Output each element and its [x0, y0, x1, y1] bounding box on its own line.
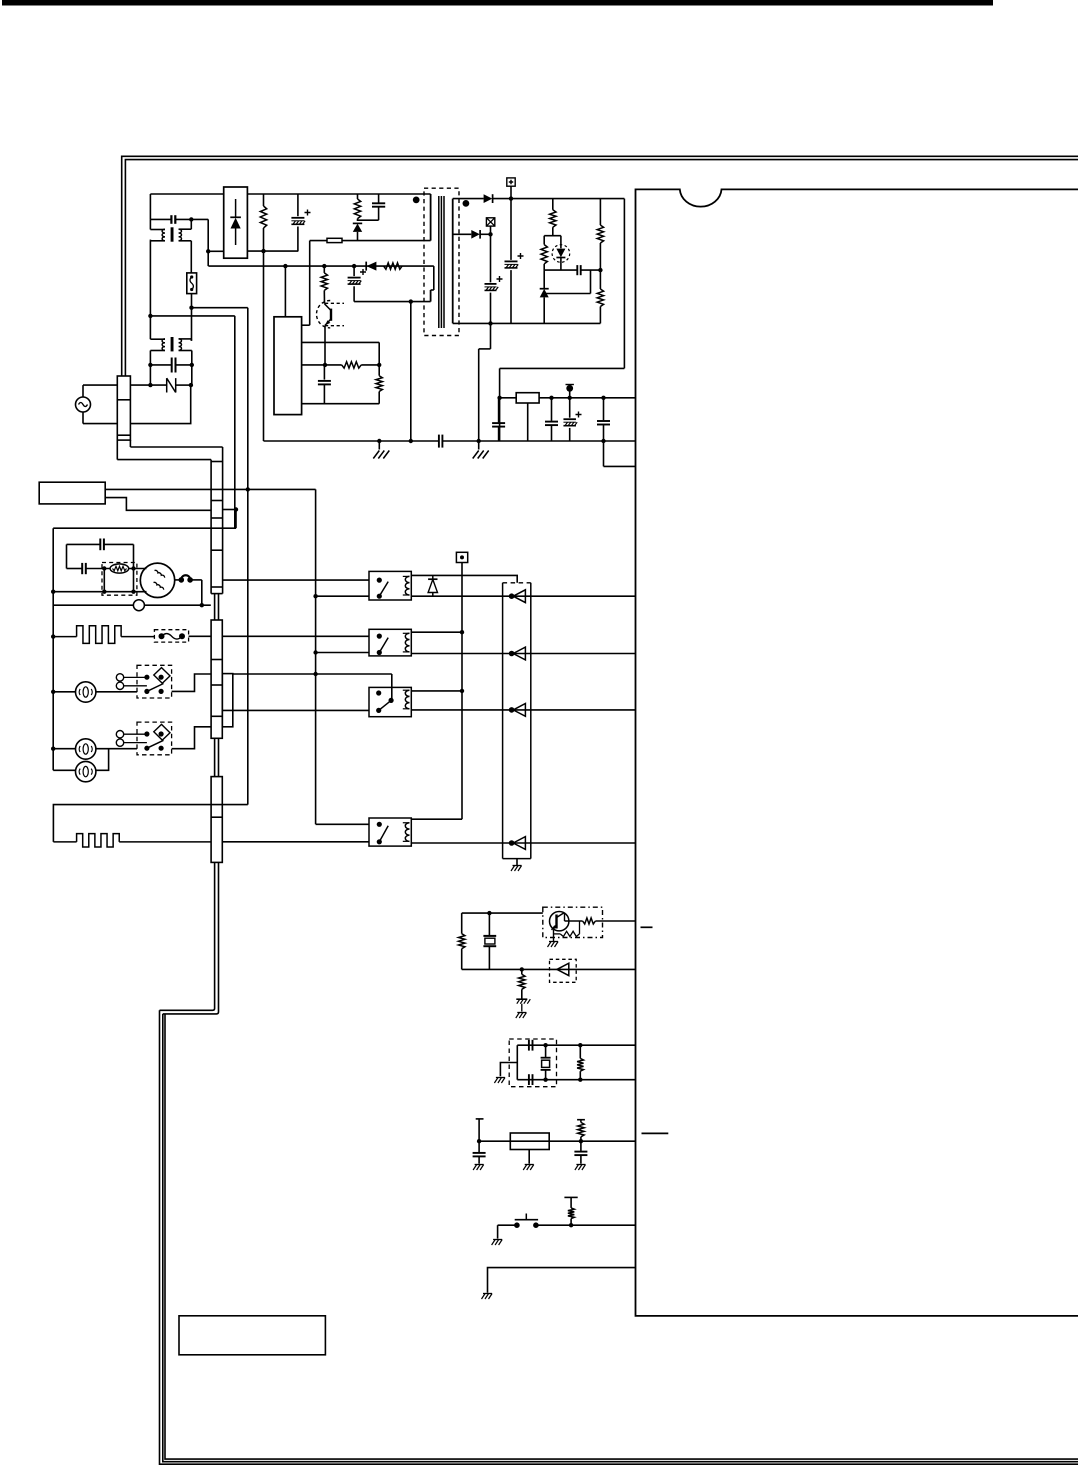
node X1 top: [543, 1043, 547, 1047]
capacitor C9 electrolytic: [510, 199, 512, 260]
terminal block CN-A: [117, 376, 130, 440]
ground IC4: [528, 1150, 530, 1164]
resistor R3 sense: [327, 238, 342, 242]
node IR divider: [520, 967, 524, 971]
node TP1 rail: [509, 196, 513, 200]
wire RY3 moving: [391, 674, 393, 700]
wire sense row: [310, 240, 327, 242]
node mag bottom right: [131, 590, 135, 594]
node C1-L1 junction: [189, 217, 193, 221]
AC source PS: [76, 397, 91, 412]
wire reg output: [539, 397, 635, 399]
switch SW3 stop: [498, 1224, 517, 1226]
node aux-Q1: [322, 264, 326, 268]
wire AC bottom: [83, 423, 117, 425]
header bar: [2, 0, 993, 6]
node L3 left: [102, 566, 106, 570]
wire RY1 coil bottom: [411, 595, 635, 597]
wire relay supply: [461, 563, 463, 820]
wire RY1 no: [316, 595, 369, 597]
wire aux return: [354, 301, 431, 303]
wire zener link: [544, 293, 590, 295]
node grill junction: [234, 507, 238, 511]
heater H2 element: [53, 841, 76, 843]
buzzer BZ: [488, 913, 490, 935]
label C10 plus: [497, 276, 503, 282]
node L3 right: [131, 566, 135, 570]
wire RY2 coil top: [411, 631, 462, 633]
node C2 right: [190, 363, 194, 367]
wire RY4 com: [316, 823, 369, 825]
wire sec tap row: [453, 233, 472, 235]
connector CN-D lower: [211, 777, 222, 863]
node B supply: [566, 385, 573, 392]
node aux-IC: [283, 264, 287, 268]
wire U1 bottom row: [302, 403, 380, 405]
ground driver: [516, 859, 518, 866]
node gnd rail c: [477, 439, 481, 443]
wire bake line vertical: [247, 308, 249, 805]
node R6-R7: [377, 363, 381, 367]
capacitor C18: [478, 1141, 480, 1152]
supply stub RST b: [577, 1119, 585, 1121]
wire mag bottom row: [53, 591, 146, 593]
wire column tap: [222, 509, 236, 511]
node C2 left: [148, 363, 152, 367]
driver Q array ch3: [509, 707, 515, 713]
component block NF: [39, 482, 105, 504]
node C10 rail: [488, 321, 492, 325]
capacitor C17: [528, 1074, 530, 1085]
capacitor C1 X2: [150, 218, 171, 220]
ground IR: [521, 1004, 523, 1012]
resistor R1 bleeder: [263, 194, 265, 206]
wire RY2 com: [222, 635, 369, 637]
wire AC top: [83, 384, 117, 386]
capacitor C10 electrolytic: [490, 234, 492, 282]
wire reset row: [479, 1140, 635, 1142]
wire L2 left down: [149, 351, 151, 386]
wire RY1 com: [222, 579, 369, 581]
wire fuse down: [191, 294, 193, 341]
ground Q2 emitter: [553, 930, 555, 942]
driver IC3 outline: [503, 582, 531, 584]
wire IR row: [462, 968, 636, 970]
resistor R4 aux: [384, 263, 403, 269]
wire mag filament out: [175, 579, 182, 581]
ground sense: [483, 1293, 492, 1295]
wire choke-L1 right down: [190, 241, 192, 273]
node filament b: [187, 577, 193, 583]
node gnd rail a: [377, 439, 381, 443]
wire U1 fb lower: [302, 364, 342, 366]
label C14 plus: [576, 412, 582, 418]
wire RY2 coil bottom: [411, 653, 635, 655]
ground osc: [496, 1077, 505, 1079]
wire 12V rail across: [500, 367, 625, 369]
node gnd rail d: [601, 439, 605, 443]
wire line pair bottom-left run: [160, 1010, 1078, 1464]
wire SW1 out: [172, 674, 211, 691]
wire Q2 collector: [565, 920, 583, 922]
node RY3 supply: [460, 689, 464, 693]
relay RY2: [369, 629, 411, 656]
node reg out C14: [568, 396, 572, 400]
crystal box: [509, 1039, 556, 1087]
wire mid-left branch: [150, 315, 234, 317]
wire Q1 emitter: [324, 325, 326, 365]
capacitor C13: [551, 398, 553, 421]
node fan junction: [200, 603, 204, 607]
wire block to column upper: [130, 446, 222, 448]
wire RY3 coil top: [411, 690, 462, 692]
wire fuse branch right: [192, 307, 248, 309]
resistor R17: [578, 1122, 584, 1136]
resistor R6: [342, 362, 362, 368]
wire C1 right drop: [207, 219, 209, 266]
connector filament arc: [181, 575, 190, 578]
fan motor FM: [133, 600, 144, 611]
wire NF out lower: [105, 498, 211, 511]
node filament a: [179, 577, 185, 583]
wire osc1: [517, 1044, 635, 1046]
diode D1 snubber: [353, 222, 362, 224]
capacitor C12: [498, 398, 500, 423]
capacitor C7: [323, 365, 325, 380]
thermal cutout TCO1: [154, 630, 188, 642]
node R16 top: [578, 1043, 582, 1047]
testpoint TP1: [507, 178, 515, 186]
capacitor C14 electrolytic: [569, 392, 571, 398]
IC U10 main control unit outline: [636, 189, 1078, 1316]
diode D5 relay: [432, 575, 434, 579]
resistor R9 upper: [599, 199, 601, 226]
resistor R15: [521, 969, 523, 974]
IC U10 pin stub row A: [641, 926, 653, 928]
connector CN-C middle: [211, 620, 222, 738]
wire mains top corner: [149, 194, 151, 219]
node RY2 supply: [460, 630, 464, 634]
switch SW1 door: [137, 665, 172, 698]
node reset b: [579, 1139, 583, 1143]
capacitor C3 main electrolytic: [297, 194, 299, 216]
node fuse-branch: [189, 306, 193, 310]
wire NF out upper: [105, 488, 315, 490]
connector CN-E lamp: [222, 674, 233, 727]
wire bake return: [53, 805, 247, 842]
driver Q array ch2: [509, 651, 515, 657]
wire AC neutral riser: [130, 385, 190, 424]
driver Q array ch1: [509, 593, 515, 599]
wire bridge top right: [247, 193, 430, 195]
wire osc left link: [516, 1045, 518, 1080]
IC U1 SMPS control: [274, 317, 302, 415]
wire sec top rail: [453, 198, 484, 200]
transformer T1 aux winding: [433, 266, 435, 290]
wire RY3 com: [222, 709, 369, 711]
transformer T1 core: [438, 196, 440, 328]
wire SW2 out: [172, 727, 211, 749]
node RY2 no: [313, 650, 317, 654]
resistor R7: [378, 342, 380, 375]
wire bridge out left: [208, 250, 224, 252]
node reset a: [477, 1139, 481, 1143]
switch SW2 door: [137, 722, 172, 755]
node rail mag: [51, 590, 55, 594]
capacitor C21 HV: [67, 568, 83, 570]
wire buzzer top: [462, 912, 543, 914]
wire sec bottom rail: [453, 322, 601, 324]
wire U1 fb upper: [302, 341, 380, 343]
testpoint TP3: [456, 552, 467, 562]
wire AC phase through block: [130, 384, 150, 386]
node lamp link: [313, 672, 317, 676]
crystal X1: [545, 1045, 547, 1057]
wire bridge bottom right: [247, 250, 298, 252]
wire snubber join: [358, 219, 379, 221]
ground SW3: [497, 1225, 499, 1238]
diode D4: [471, 230, 480, 239]
relay RY3: [369, 687, 411, 716]
node rail LP2: [51, 747, 55, 751]
wire lamp bus drop: [315, 489, 317, 824]
testpoint TP2: [486, 218, 494, 226]
wire R6 right: [361, 364, 379, 366]
label C6 plus: [360, 269, 366, 275]
wire U1 pin top: [284, 266, 286, 317]
heater H1 element: [53, 636, 76, 638]
node buzzer top: [487, 911, 491, 915]
driver Q array ch4: [509, 840, 515, 846]
lamp LP2: [53, 748, 75, 750]
resistor R16: [579, 1045, 581, 1058]
node X1 bottom: [543, 1078, 547, 1082]
resistor R12: [461, 913, 463, 934]
resistor R13: [583, 918, 596, 924]
varistor ZNR1: [150, 384, 166, 386]
regulator IC2: [516, 393, 539, 403]
capacitor C8 Y-cap: [438, 435, 440, 448]
capacitor C16: [528, 1040, 530, 1051]
node C1 drop junction: [206, 249, 210, 253]
node R16 bottom: [578, 1078, 582, 1082]
wire block to column lower: [117, 459, 211, 461]
capacitor C15: [603, 398, 605, 421]
wire RY1 coil top: [411, 575, 517, 582]
node rail H1: [51, 634, 55, 638]
node bake-lamp junction: [246, 487, 250, 491]
bridge rectifier DB1: [224, 187, 248, 258]
wire RY4 no: [222, 841, 369, 843]
ground secondary: [478, 441, 480, 450]
photodetector PC2: [550, 959, 577, 982]
node RY1 no: [313, 594, 317, 598]
wire sense low: [488, 1268, 636, 1293]
capacitor C6 aux electrolytic: [353, 266, 355, 276]
lamp LP3: [53, 769, 75, 771]
transistor Q2 box: [543, 907, 603, 937]
wire bus top: [235, 510, 237, 529]
wire fan row: [53, 604, 133, 606]
resistor R18: [564, 1196, 577, 1198]
transformer T1 secondary: [452, 199, 454, 324]
node rail LP1: [51, 690, 55, 694]
optocoupler PC1 LED branch: [544, 235, 561, 237]
lamp LP1 oven: [53, 691, 75, 693]
wire lamp relay link: [233, 673, 392, 675]
wire 12V rail drop: [623, 199, 625, 369]
wire osc2: [517, 1079, 635, 1081]
wire aux feedback row: [208, 265, 433, 267]
wire C20 left drop: [66, 544, 68, 568]
resistor R2 snubber: [357, 194, 359, 199]
diode D3: [484, 194, 493, 203]
wire osc gnd stub: [500, 1063, 517, 1077]
wire AC line pair top run: [122, 156, 1078, 376]
node AC neutral-filter: [189, 383, 193, 387]
choke L2 common-mode: [149, 316, 151, 339]
component block PWB label: [179, 1316, 325, 1355]
wire reg gnd pin: [527, 403, 529, 441]
node T1 secondary polarity: [463, 200, 470, 207]
inductor L3 filament: [110, 564, 129, 573]
node reg out C15: [601, 396, 605, 400]
wire IC pin vcc: [302, 324, 310, 326]
zener ZD1: [543, 270, 545, 288]
diode D2 aux: [365, 262, 367, 271]
wire FB verticals: [103, 569, 105, 592]
resistor R5 Q1 collector: [323, 266, 325, 273]
wire gnd step to IC: [603, 441, 605, 466]
transistor Q1: [317, 301, 331, 328]
node AC phase-filter: [148, 383, 152, 387]
wire connector line pair below column: [160, 862, 215, 1010]
wire RY2 no: [316, 652, 369, 654]
node reg out C13: [549, 396, 553, 400]
relay RY1: [369, 571, 411, 600]
node reg input: [497, 396, 501, 400]
ground primary: [378, 441, 380, 450]
node R1 on DC bus: [261, 249, 265, 253]
node T1 primary polarity: [413, 197, 420, 204]
wire CN pair 2: [214, 738, 216, 776]
capacitor C20 HV: [67, 543, 101, 545]
capacitor C22 IR: [516, 998, 527, 1000]
wire reg input: [500, 397, 517, 399]
wire grill line vertical: [234, 316, 236, 528]
ground C19: [576, 1164, 585, 1166]
wire 12V to regulator: [499, 368, 501, 441]
node filter mid-left: [148, 314, 152, 318]
transformer T1 outline: [424, 188, 459, 335]
fuse F1: [187, 273, 197, 294]
capacitor C2 X2: [150, 364, 171, 366]
reset IC4: [510, 1133, 549, 1150]
wire choke-L1 left down: [149, 241, 151, 316]
capacitor C4 snubber: [378, 194, 380, 203]
wire L3 to mag: [129, 568, 147, 570]
node aux return gnd: [409, 299, 413, 303]
choke L1 common-mode: [149, 219, 151, 229]
node aux-C6: [352, 264, 356, 268]
node mag bottom left: [102, 590, 106, 594]
wire L2 right down: [191, 351, 193, 386]
wire RY3 coil bottom: [411, 709, 635, 711]
connector CN-B upper: [222, 447, 224, 594]
node C11-R9: [598, 268, 602, 272]
wire filament to fan row: [190, 579, 202, 581]
wire C20 right drop: [133, 544, 135, 568]
wire RY4 coil top: [411, 818, 462, 820]
wire left rail: [52, 528, 54, 770]
node TP2 tap: [488, 232, 492, 236]
label C3 plus: [305, 210, 311, 216]
wire aux return drop: [410, 302, 412, 441]
capacitor C19: [580, 1141, 582, 1151]
resistor R14: [554, 933, 561, 935]
wire CN pair 1: [214, 594, 216, 620]
supply stub RST a: [476, 1118, 484, 1120]
resistor R9 lower: [599, 270, 601, 289]
inductor FB box: [102, 563, 137, 596]
wire mains top: [150, 193, 223, 195]
node SW3-R18: [569, 1223, 573, 1227]
node gnd rail b: [409, 439, 413, 443]
wire secondary gnd rail: [442, 440, 635, 442]
magnetron MG: [140, 563, 174, 597]
wire sec return step: [490, 323, 492, 349]
node Q1-R6: [323, 363, 327, 367]
IC U10 pin stub row B: [642, 1132, 669, 1134]
resistor R8: [552, 199, 554, 210]
capacitor C11: [576, 265, 578, 275]
ground C18: [475, 1164, 484, 1166]
relay RY4: [369, 818, 411, 846]
wire primary gnd rail: [264, 440, 439, 442]
wire RY4 coil bottom: [411, 842, 635, 844]
transistor Q2: [550, 912, 569, 931]
transformer T1 primary: [430, 194, 432, 241]
label C9 plus: [518, 253, 524, 259]
wire sense left drop: [309, 241, 311, 326]
